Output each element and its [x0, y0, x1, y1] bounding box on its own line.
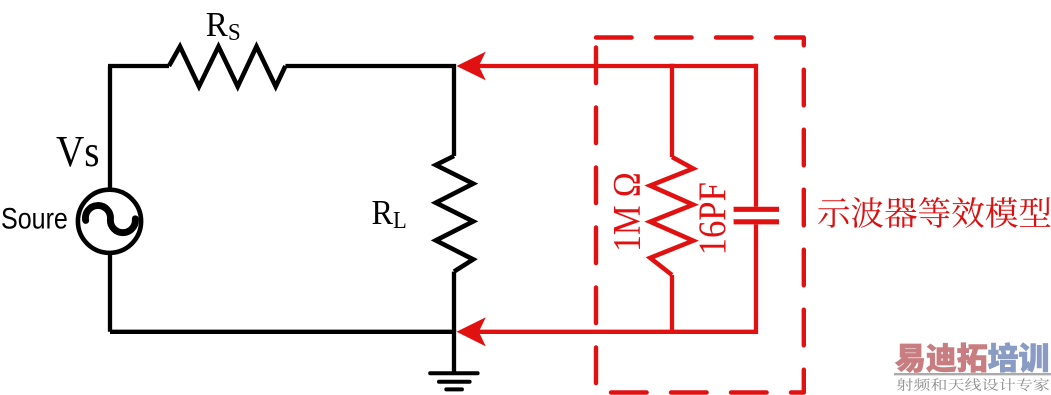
arrow bottom (red probe arrow) — [457, 317, 486, 346]
watermark underline — [894, 373, 1051, 375]
label Vs — [56, 128, 100, 177]
resistor RL — [436, 156, 473, 272]
wire left vertical bottom (Vs source bottom lead) — [108, 255, 112, 332]
label 16PF (rotated) — [690, 182, 733, 255]
svg-text:16PF: 16PF — [690, 182, 733, 255]
svg-text:1M Ω: 1M Ω — [605, 172, 648, 251]
capacitor 16PF — [734, 209, 779, 222]
watermark logo text — [895, 343, 1047, 373]
wire right branch lower — [452, 272, 456, 332]
wire right branch upper — [452, 64, 456, 156]
wire red resistor branch upper — [670, 64, 674, 157]
wire red top — [478, 64, 757, 68]
label RS — [206, 6, 241, 46]
svg-text:Soure: Soure — [1, 201, 68, 234]
wire top left segment — [108, 64, 169, 68]
dashed box (oscilloscope equivalent model) — [596, 38, 804, 393]
wire top right segment — [285, 64, 456, 68]
arrow top (red probe arrow) — [457, 52, 486, 81]
svg-text:Vs: Vs — [56, 128, 100, 177]
wire red bottom — [478, 330, 757, 334]
label Soure — [1, 201, 68, 234]
label RL — [372, 194, 407, 234]
wire red resistor branch lower — [670, 275, 674, 334]
wire bottom — [110, 330, 456, 334]
label oscilloscope equivalent model (CJK) — [818, 197, 1051, 228]
watermark subtitle — [897, 378, 1049, 391]
wire left vertical top (Vs source top lead) — [108, 66, 112, 188]
wire red capacitor branch lower — [754, 224, 758, 334]
resistor RS — [169, 47, 285, 87]
wire ground stem — [452, 330, 456, 374]
wire red capacitor branch upper — [754, 64, 758, 207]
label 1M ohm (rotated) — [605, 172, 648, 251]
resistor 1M — [650, 157, 693, 275]
ground — [430, 373, 477, 389]
source VS (AC source circle) — [78, 190, 141, 253]
